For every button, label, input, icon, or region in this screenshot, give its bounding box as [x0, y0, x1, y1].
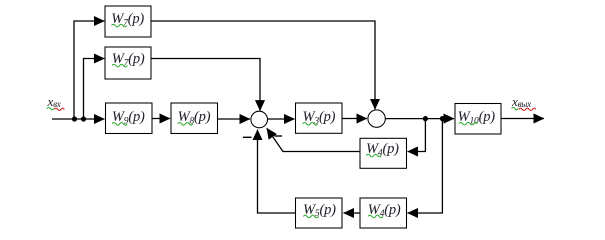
svg-text:xвых: xвых: [511, 94, 531, 109]
wire W8 to sum S1: [218, 118, 251, 120]
wire W3 to sum S2: [342, 118, 367, 120]
wire output: [502, 118, 545, 120]
block W7 (top): [105, 6, 151, 37]
wire branch up to W7 top block: [74, 21, 104, 119]
wire S1 to W3: [268, 118, 295, 120]
svg-text:W5(p): W5(p): [303, 202, 336, 219]
wire junction B down to bottom feedback row: [408, 119, 443, 213]
summing junction S1: [251, 111, 268, 128]
svg-text:W7(p): W7(p): [112, 51, 145, 68]
wire branch up to W7 second block: [84, 59, 105, 120]
svg-text:W3(p): W3(p): [303, 109, 336, 126]
wire W9 to W8: [152, 118, 170, 120]
block W3: [296, 103, 343, 133]
wire input horizontal: [52, 118, 104, 120]
wire junction A down into W4 middle: [408, 119, 426, 152]
wire W5 up into S1 bottom: [258, 130, 296, 213]
wire W4 bottom to W5: [344, 212, 361, 214]
block W10: [455, 104, 501, 135]
block W8: [171, 103, 218, 134]
block W4 (middle feedback): [360, 138, 407, 168]
wire S2 to W10: [385, 118, 454, 120]
minus sign at S1 bottom-left: [243, 136, 252, 138]
block W5: [296, 198, 343, 228]
svg-text:W7(p): W7(p): [111, 11, 144, 28]
node junction A: [423, 116, 428, 121]
wire W4 middle to S1 (diagonal): [267, 128, 360, 151]
node junction B: [440, 116, 445, 121]
wire W7 second to S1: [151, 59, 260, 111]
block W4 (bottom): [360, 198, 407, 228]
svg-text:W8(p): W8(p): [178, 109, 211, 126]
block W7 (second): [105, 47, 151, 79]
svg-text:W9(p): W9(p): [112, 109, 145, 126]
svg-text:W4(p): W4(p): [368, 202, 401, 219]
node junction on input (left): [72, 116, 77, 121]
minus sign at S1 bottom-right: [275, 135, 283, 137]
block W9: [106, 103, 153, 134]
node junction on input (right): [81, 116, 86, 121]
wire W7 top to S2: [151, 21, 375, 109]
summing junction S2: [368, 110, 385, 127]
svg-text:W4(p): W4(p): [366, 141, 399, 158]
